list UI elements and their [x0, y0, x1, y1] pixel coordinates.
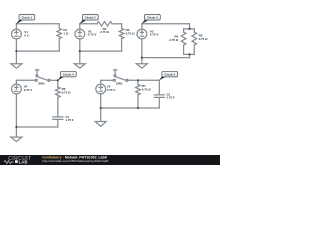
- node circuit5 V5 bottom: [100, 107, 102, 109]
- svg-text:0.75 V: 0.75 V: [24, 88, 34, 92]
- node circuit5 R7 bottom: [137, 107, 139, 109]
- wire C1 bottom lead: [57, 120, 59, 127]
- footer logo block: [15, 160, 18, 163]
- svg-text:Circuit_3: Circuit_3: [147, 16, 158, 20]
- wire C2 top lead: [158, 80, 160, 94]
- node circuit3 rail top: [188, 28, 190, 30]
- wire circuit5 top left: [101, 79, 114, 81]
- switch SW1: [35, 79, 37, 81]
- node circuit5 R7 top: [137, 79, 139, 81]
- wire SW2 to corner: [128, 79, 159, 81]
- ground circuit5: [95, 108, 106, 126]
- wire V5 top lead: [100, 80, 102, 84]
- wire circuit2 bottom: [80, 50, 122, 52]
- switch SW2: [113, 79, 115, 81]
- voltage source V1: [12, 29, 22, 39]
- wire circuit5 bottom: [101, 107, 160, 109]
- ground circuit4: [11, 127, 22, 142]
- svg-text:1 Ω: 1 Ω: [63, 32, 68, 36]
- svg-text:6.75 Ω: 6.75 Ω: [62, 90, 72, 94]
- wire V5 bottom lead: [100, 94, 102, 108]
- wire R2 to R3: [112, 23, 122, 25]
- resistor R4: [183, 29, 185, 32]
- ground circuit3: [136, 58, 147, 69]
- wire circuit2 top left: [80, 23, 97, 25]
- wire V2 top lead: [79, 24, 81, 29]
- wire V1 top lead: [15, 24, 17, 29]
- wire circuit3 top: [142, 23, 190, 25]
- svg-text:0.75 V: 0.75 V: [150, 33, 160, 37]
- wire circuit4 top left: [16, 79, 35, 81]
- svg-text:2.75 Ω: 2.75 Ω: [169, 38, 179, 42]
- voltage source V4: [12, 84, 22, 94]
- wire C2 bottom lead: [158, 98, 160, 108]
- resistor R2: [97, 22, 112, 27]
- wire circuit4 bottom: [16, 126, 57, 128]
- flag Circuit_3: [142, 20, 148, 24]
- svg-text:1.75 F: 1.75 F: [166, 96, 175, 100]
- node circuit4 bottom: [15, 126, 17, 128]
- svg-text:6.75 Ω: 6.75 Ω: [142, 87, 152, 91]
- capacitor C2: [154, 95, 164, 98]
- node circuit2 bottom: [79, 50, 81, 52]
- wire V1 bottom lead: [15, 39, 17, 51]
- wire SW1 to node: [50, 79, 58, 81]
- wire circuit1 bottom: [16, 50, 59, 52]
- svg-text:Circuit_1: Circuit_1: [22, 16, 33, 20]
- svg-text:1.75 F: 1.75 F: [65, 118, 74, 122]
- wire circuit3 stem bottom: [189, 54, 191, 57]
- ground circuit2: [74, 51, 85, 68]
- wire circuit3 top rail: [184, 28, 195, 30]
- svg-text:3.75 Ω: 3.75 Ω: [199, 37, 209, 41]
- ground circuit1: [11, 51, 22, 68]
- svg-text:Circuit_5: Circuit_5: [165, 73, 176, 77]
- svg-text:Circuit_2: Circuit_2: [85, 16, 96, 20]
- wire V3 top lead: [141, 24, 143, 29]
- svg-text:SW1: SW1: [38, 82, 45, 86]
- capacitor C1: [53, 117, 63, 120]
- svg-text:LAB: LAB: [19, 160, 28, 165]
- resistor R7: [137, 80, 139, 84]
- wire circuit1 top: [16, 23, 59, 25]
- resistor R1: [58, 24, 60, 29]
- wire V2 bottom lead: [79, 39, 81, 51]
- wire circuit3 bottom rail: [184, 53, 195, 55]
- resistor R3: [121, 24, 123, 29]
- wire V4 top lead: [15, 80, 17, 84]
- flag Circuit_4: [58, 77, 64, 81]
- svg-text:SW2: SW2: [116, 82, 123, 86]
- svg-text:3.75 Ω: 3.75 Ω: [126, 32, 136, 36]
- flag Circuit_2: [80, 20, 86, 24]
- flag Circuit_5: [159, 77, 165, 81]
- svg-text:2.75 Ω: 2.75 Ω: [100, 30, 110, 34]
- svg-text:0.75 V: 0.75 V: [107, 88, 117, 92]
- resistor R6: [57, 80, 59, 87]
- node circuit3 V3 bottom: [141, 57, 143, 59]
- footer bar: [0, 155, 220, 165]
- voltage source V5: [96, 84, 106, 94]
- resistor R5: [193, 29, 195, 32]
- wire V4 bottom lead: [15, 94, 17, 127]
- wire V3 bottom lead: [141, 39, 143, 58]
- footer logo zigzag: [4, 160, 13, 163]
- wire circuit3 bottom: [142, 57, 190, 59]
- node circuit4 flag corner: [57, 79, 59, 81]
- node circuit3 rail bottom: [188, 53, 190, 55]
- flag Circuit_1: [16, 20, 22, 24]
- svg-text:0.75 V: 0.75 V: [88, 33, 98, 37]
- wire circuit3 stem top: [189, 24, 191, 29]
- svg-text:Circuit_4: Circuit_4: [63, 73, 74, 77]
- voltage source V2: [75, 29, 85, 39]
- node circuit1 bottom: [15, 50, 17, 52]
- svg-text:http://circuitlab.com/c/637hs9: http://circuitlab.com/c/637hs9sam/phys10…: [42, 159, 108, 163]
- voltage source V3: [137, 29, 147, 39]
